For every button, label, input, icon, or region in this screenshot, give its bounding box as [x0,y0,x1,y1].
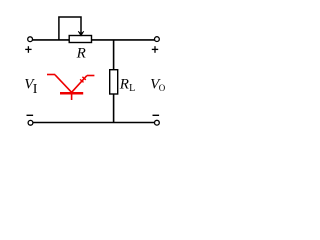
terminal T4 (bottom-right output -) [155,120,160,125]
wire: top node down to load RL [113,40,115,70]
plus sign at T2 [152,46,158,53]
svg-text:R: R [76,46,86,62]
arrowhead tick 2 (red) [80,79,83,82]
arrowhead: wiper arrow into R [78,31,84,36]
terminal T3 (bottom-left input -) [28,120,33,125]
zener diode DZ (red annotation): anode lead left [47,74,55,76]
wire: RL bottom to bottom rail [113,94,115,123]
svg-text:O: O [159,83,166,93]
resistor RL (load) [110,70,118,94]
wire: bottom rail [33,122,155,124]
minus sign at T4 [153,114,160,116]
terminal T1 (top-left input +) [28,37,33,42]
zener diode DZ: cathode stub lead [71,93,73,100]
zener diode DZ: left slope of triangle [55,75,72,93]
resistor R (series rheostat body) [69,36,91,43]
terminal T2 (top-right output +) [155,37,160,42]
arrowhead tick 1 (red) [82,77,85,80]
wire: top-left terminal to resistor R [32,39,69,41]
wire: resistor R to top-right terminal [92,39,155,41]
svg-text:R: R [119,76,129,92]
svg-text:I: I [33,82,38,97]
wire: rheostat wiper tap (up-over bracket) [59,17,81,40]
svg-text:L: L [129,83,135,94]
plus sign at T1 [25,46,31,53]
cathode lead right (red) [87,75,95,77]
arrow shaft (red, through diode up-right) [72,76,87,93]
minus sign at T3 [27,114,34,116]
zener diode DZ: cathode bar [60,92,83,95]
